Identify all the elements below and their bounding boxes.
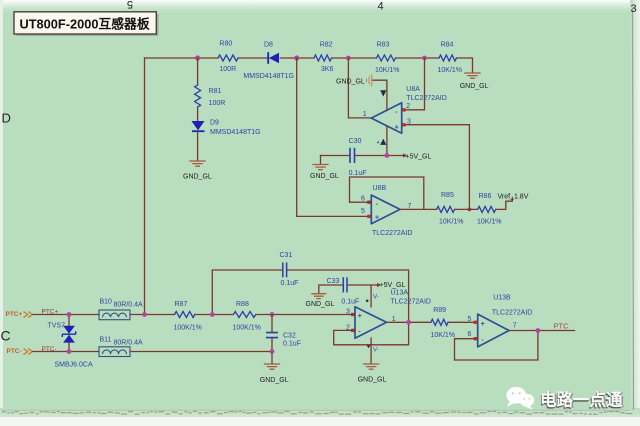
wire R87 to R88 <box>195 314 234 316</box>
power +5V_GL label lower <box>377 282 405 289</box>
wire U13B output PTC <box>509 330 575 332</box>
title box UT800F-2000 <box>14 12 159 36</box>
node junction D8 out <box>294 55 299 60</box>
svg-text:U8B: U8B <box>373 185 387 192</box>
svg-text:3K6: 3K6 <box>321 66 334 73</box>
ground GND_GL at C33 <box>306 294 335 308</box>
op-amp U13B TLC2272AID <box>468 294 533 347</box>
svg-text:+: + <box>395 125 399 132</box>
svg-text:U8A: U8A <box>406 86 420 93</box>
resistor R88 <box>233 301 261 332</box>
svg-text:10K/1%: 10K/1% <box>477 219 502 226</box>
svg-text:+: + <box>481 321 485 328</box>
ground GND_GL at U13A <box>358 364 387 384</box>
node junction R82/R83 feedback <box>346 56 351 61</box>
svg-text:V-: V- <box>373 294 379 300</box>
svg-text:PTC+: PTC+ <box>6 311 23 318</box>
svg-text:GND_GL: GND_GL <box>310 173 339 180</box>
watermark text <box>539 389 624 411</box>
svg-text:GND_GL: GND_GL <box>336 79 365 86</box>
svg-text:R85: R85 <box>441 192 454 199</box>
svg-text:100K/1%: 100K/1% <box>174 325 202 332</box>
resistor R85 <box>437 192 464 226</box>
TVS diode TVS7 SMBJ6.0CA <box>48 315 93 369</box>
svg-text:5: 5 <box>127 0 133 10</box>
svg-text:TLC2272AID: TLC2272AID <box>391 299 431 306</box>
ground GND_GL at C30 <box>310 165 339 181</box>
node junction B10 out <box>142 312 147 317</box>
svg-text:GND_GL: GND_GL <box>460 83 489 90</box>
svg-text:GND_GL: GND_GL <box>183 174 212 181</box>
svg-text:80R/0.4A: 80R/0.4A <box>114 301 144 308</box>
resistor R82 <box>314 42 333 74</box>
svg-text:C30: C30 <box>349 138 362 145</box>
resistor R81 <box>195 58 226 121</box>
svg-text:TLC2272AID: TLC2272AID <box>372 230 412 237</box>
svg-text:6: 6 <box>468 331 472 338</box>
ground GND_GL right <box>460 73 489 90</box>
svg-text:MMSD4148T1G: MMSD4148T1G <box>243 73 294 80</box>
resistor R89 <box>431 307 456 339</box>
node junction R83/R84 <box>422 56 427 61</box>
svg-text:0.1uF: 0.1uF <box>341 298 359 305</box>
svg-text:5: 5 <box>468 316 472 323</box>
svg-text:B10: B10 <box>100 299 113 306</box>
resistor R84 <box>438 42 463 75</box>
svg-text:+: + <box>358 313 362 320</box>
wire U8B pin6 feedback loop <box>350 177 424 209</box>
svg-text:SMBJ6.0CA: SMBJ6.0CA <box>55 361 93 368</box>
svg-text:100R: 100R <box>209 100 226 107</box>
capacitor C30 0.1uF <box>321 138 404 177</box>
wire B10 to R87 <box>130 314 175 316</box>
node junction U13B output <box>536 328 541 333</box>
node junction TVS bottom <box>67 349 72 354</box>
svg-text:100R: 100R <box>219 66 236 73</box>
ferrite bead B10 80R/0.4A <box>99 299 143 320</box>
resistor R87 <box>174 301 202 332</box>
wire U8A pin2 to R83/R84 node <box>406 58 425 110</box>
svg-text:U13B: U13B <box>493 294 511 301</box>
svg-text:D8: D8 <box>264 42 273 49</box>
svg-text:U13A: U13A <box>391 289 409 296</box>
svg-text:+: + <box>375 215 379 222</box>
svg-text:10K/1%: 10K/1% <box>375 67 400 74</box>
svg-text:PTC-: PTC- <box>7 348 22 355</box>
svg-text:TLC2272AID: TLC2272AID <box>492 310 532 317</box>
diode D8 MMSD4148T1G <box>243 42 294 81</box>
op-amp U8A TLC2272AID <box>363 80 447 155</box>
svg-text:TLC2272AID: TLC2272AID <box>406 95 446 102</box>
wire U8A pin3 to R85/R86 node <box>406 125 470 210</box>
node junction TVS top <box>67 312 72 317</box>
svg-text:R89: R89 <box>433 307 446 314</box>
capacitor C32 0.1uF <box>266 315 301 364</box>
svg-text:R88: R88 <box>236 301 249 308</box>
svg-text:Vref_1.8V: Vref_1.8V <box>498 193 529 200</box>
op-amp U13A TLC2272AID <box>346 289 431 353</box>
svg-text:100K/1%: 100K/1% <box>233 325 261 332</box>
svg-text:C31: C31 <box>280 252 293 259</box>
svg-text:2: 2 <box>406 103 410 110</box>
wire U13A V- to ground <box>370 338 372 364</box>
svg-text:10K/1%: 10K/1% <box>431 332 456 339</box>
svg-text:UT800F-2000互感器板: UT800F-2000互感器板 <box>20 17 150 32</box>
svg-text:D: D <box>2 111 11 126</box>
wire U13A pin2 feedback loop <box>334 322 409 345</box>
svg-text:R86: R86 <box>479 193 492 200</box>
wire R88 to U13A pin3 <box>256 314 355 316</box>
svg-text:10K/1%: 10K/1% <box>438 67 463 74</box>
wire U8A pin1 feedback <box>348 58 371 118</box>
node junction U13A output <box>406 320 411 325</box>
svg-text:10K/1%: 10K/1% <box>439 219 464 226</box>
port PTC+ connector <box>6 311 33 318</box>
svg-text:0.1uF: 0.1uF <box>283 341 301 348</box>
wire U13A output <box>387 321 474 323</box>
wire B11 to C32 ground node <box>130 351 272 353</box>
svg-text:4: 4 <box>378 1 384 13</box>
svg-text:+: + <box>377 140 380 146</box>
node junction R85/R86 <box>468 208 472 212</box>
node junction +5V at U8A V- pin <box>385 153 390 158</box>
svg-text:GND_GL: GND_GL <box>358 377 387 384</box>
node junction B11/C32/ground <box>270 349 275 354</box>
svg-text:D9: D9 <box>210 120 219 127</box>
svg-text:C: C <box>1 328 11 344</box>
watermark wechat logo <box>506 387 534 410</box>
svg-text:3: 3 <box>407 118 411 125</box>
svg-text:3: 3 <box>631 3 637 15</box>
ground GND_GL under D9 <box>183 132 212 181</box>
svg-text:7: 7 <box>513 323 517 330</box>
svg-text:0.1uF: 0.1uF <box>349 170 367 177</box>
wire main left vertical <box>144 58 146 315</box>
port PTC- connector <box>7 348 33 355</box>
resistor R86 <box>477 193 502 226</box>
node junction C32 tap <box>270 312 275 317</box>
svg-text:B11: B11 <box>100 337 112 344</box>
svg-text:R83: R83 <box>377 42 390 49</box>
svg-text:5: 5 <box>361 208 365 215</box>
ground GND_GL at C32 <box>260 364 289 384</box>
power +5V_GL label <box>403 153 431 160</box>
svg-text:+5V_GL: +5V_GL <box>380 282 406 289</box>
capacitor C31 0.1uF <box>280 252 299 287</box>
node junction R87/R88 C31 tap <box>210 312 215 317</box>
wire PTC- input <box>33 351 99 353</box>
wire top horizontal R80 D8 <box>145 58 473 73</box>
svg-text:R81: R81 <box>209 88 222 95</box>
svg-text:C32: C32 <box>283 332 296 339</box>
resistor R83 <box>375 42 400 75</box>
svg-text:GND_GL: GND_GL <box>306 301 335 308</box>
svg-text:1: 1 <box>363 111 367 118</box>
svg-text:MMSD4148T1G: MMSD4148T1G <box>210 129 261 136</box>
svg-text:GND_GL: GND_GL <box>260 377 289 384</box>
svg-text:R82: R82 <box>320 42 333 49</box>
svg-text:V-: V- <box>373 347 379 353</box>
svg-text:TVS7: TVS7 <box>48 323 66 330</box>
svg-text:C33: C33 <box>327 278 340 285</box>
wire U8B output <box>400 197 512 209</box>
svg-text:PTC: PTC <box>554 322 570 331</box>
wire U13B pin6 feedback loop <box>455 331 538 361</box>
wire U8B input from D8 node <box>297 58 372 216</box>
ground GND_GL sideways at U8A V+ <box>336 74 372 86</box>
svg-text:+5V_GL: +5V_GL <box>406 153 432 160</box>
resistor R80 <box>218 41 238 74</box>
ferrite bead B11 80R/0.4A <box>99 337 143 357</box>
capacitor C33 0.1uF <box>319 277 377 307</box>
svg-text:R80: R80 <box>219 41 232 48</box>
svg-text:R84: R84 <box>441 42 454 49</box>
op-amp U8B TLC2272AID <box>361 185 412 237</box>
node junction R81 branch <box>195 55 200 60</box>
svg-text:电路一点通: 电路一点通 <box>540 389 623 409</box>
wire PTC+ input <box>33 314 99 316</box>
svg-text:R87: R87 <box>175 301 188 308</box>
wire C31 feedback loop <box>212 270 408 322</box>
diode D9 MMSD4148T1G <box>192 120 261 136</box>
svg-text:0.1uF: 0.1uF <box>281 280 299 287</box>
svg-text:80R/0.4A: 80R/0.4A <box>114 339 144 346</box>
